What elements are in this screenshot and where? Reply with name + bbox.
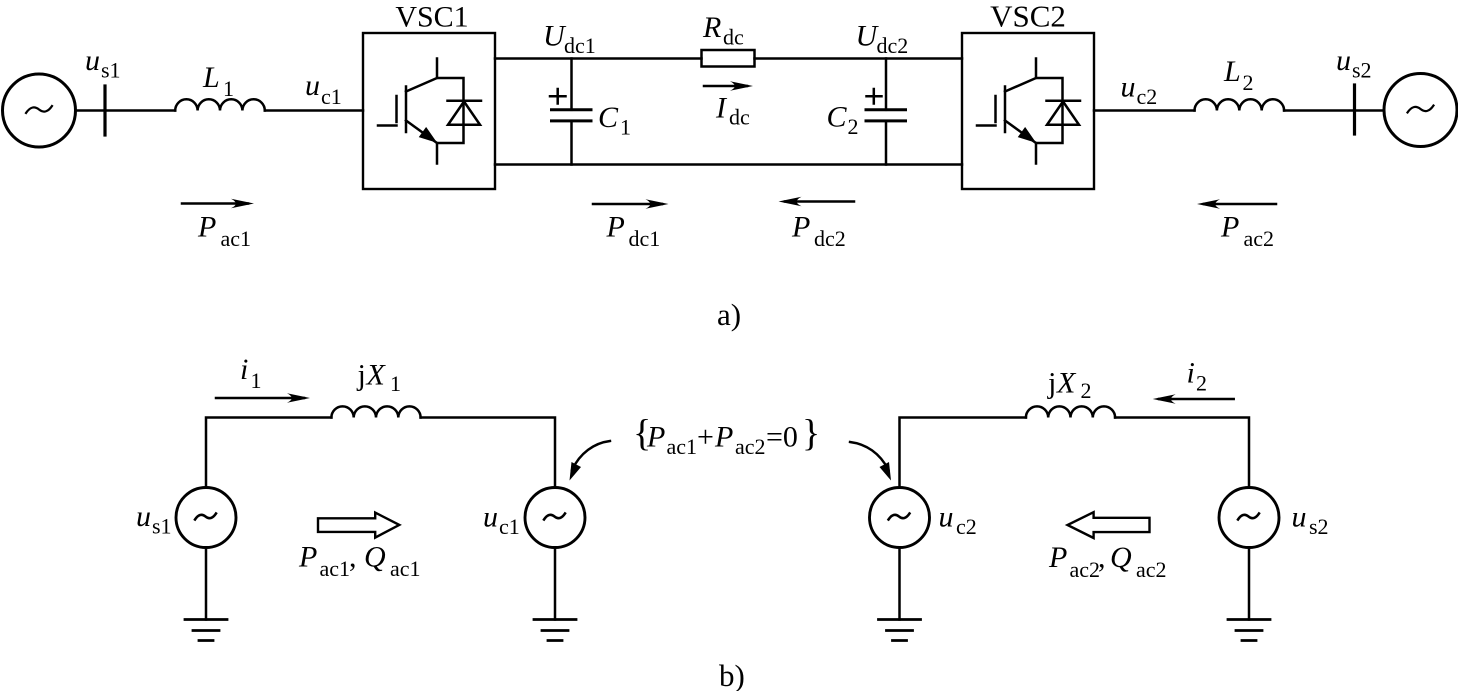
plus sign C1 (550, 89, 566, 104)
svg-text:u: u (305, 69, 320, 102)
svg-text:R: R (702, 11, 721, 44)
source us1 (176, 488, 236, 548)
svg-text:dc2: dc2 (877, 33, 909, 58)
bus bar us1 (103, 86, 106, 135)
ground us1 (185, 620, 227, 641)
capacitor C2 stub top (885, 59, 888, 110)
ground uc2 (879, 620, 921, 641)
svg-text:c2: c2 (956, 514, 977, 539)
svg-text:P: P (714, 421, 733, 454)
VSC2 diode triangle (1047, 102, 1079, 125)
svg-text:ac1: ac1 (667, 434, 698, 459)
svg-text:dc2: dc2 (814, 226, 846, 251)
arrow i2 (1159, 398, 1234, 401)
svg-text:C: C (827, 101, 848, 134)
svg-text:s2: s2 (1309, 514, 1329, 539)
VSC1 box (363, 33, 495, 189)
VSC2 IGBT gate (977, 87, 1005, 133)
svg-text:u: u (939, 501, 954, 534)
svg-text:dc: dc (729, 105, 750, 130)
ground uc1 (534, 620, 576, 641)
svg-text:s1: s1 (152, 514, 172, 539)
wire L1 to VSC1 (265, 109, 363, 112)
svg-text:L: L (202, 61, 220, 94)
svg-text:2: 2 (1196, 371, 1207, 396)
source uc1 (525, 488, 585, 548)
svg-text:u: u (136, 500, 151, 533)
tilde uc1 (544, 514, 565, 520)
inductor L1 (175, 99, 265, 110)
VSC1 IGBT gate (378, 87, 406, 133)
wire Rdc to VSC2 (755, 57, 963, 60)
arrow Pac2 (1204, 203, 1276, 206)
inductor L2 (1195, 99, 1285, 110)
svg-text:u: u (1336, 44, 1351, 77)
circuit b left: top wire (206, 418, 555, 488)
svg-text:=0: =0 (766, 421, 798, 454)
tilde us1 (195, 514, 216, 520)
svg-text:dc1: dc1 (564, 33, 596, 58)
svg-text:1: 1 (620, 115, 631, 140)
arrow Pdc2 (785, 200, 854, 203)
arrow Pdc1 (593, 203, 662, 206)
hollow arrow Pac2 (1068, 512, 1150, 538)
VSC2 IGBT emitter diagonal (1005, 121, 1036, 144)
tilde G2 (1408, 106, 1434, 113)
svg-text:s1: s1 (101, 58, 121, 83)
svg-text:Q: Q (364, 541, 386, 574)
svg-text:ac2: ac2 (735, 434, 766, 459)
svg-text:s2: s2 (1352, 58, 1372, 83)
svg-text:2: 2 (848, 114, 859, 139)
svg-text:u: u (483, 501, 498, 534)
svg-text:P: P (298, 541, 317, 574)
svg-text:1: 1 (223, 76, 234, 101)
wire uc1 to ground (554, 548, 557, 620)
tilde us2 (1238, 514, 1259, 520)
svg-text:ac2: ac2 (1244, 226, 1275, 251)
VSC1 diode bar (448, 100, 482, 103)
svg-text:c1: c1 (499, 514, 520, 539)
VSC1 IGBT emitter diagonal (406, 121, 437, 144)
svg-text:b): b) (719, 658, 745, 691)
svg-text:VSC2: VSC2 (990, 0, 1066, 34)
svg-text:1: 1 (390, 371, 401, 396)
VSC2 IGBT leads (1036, 59, 1063, 164)
svg-text:+: + (697, 421, 714, 454)
VSC2 IGBT collector diagonal (1005, 78, 1036, 92)
svg-text:i: i (1187, 357, 1195, 390)
svg-text:L: L (1223, 55, 1241, 88)
capacitor C2 stub bottom (885, 121, 888, 165)
capacitor C1 plates (552, 110, 592, 121)
wire VSC1 top dc (495, 57, 702, 60)
wire us1 to ground (205, 548, 208, 620)
svg-text:X: X (1056, 367, 1077, 400)
svg-text:j: j (357, 359, 366, 392)
VSC1 IGBT collector diagonal (406, 78, 437, 92)
svg-text:j: j (1047, 367, 1056, 400)
wire bottom dc rail (495, 163, 962, 166)
inductor jX2 (1026, 406, 1115, 417)
svg-text:u: u (85, 44, 100, 77)
wire G1 to L1 (76, 109, 176, 112)
resistor Rdc (702, 50, 755, 67)
VSC2 diode bar (1047, 100, 1081, 103)
svg-text:ac2: ac2 (1070, 557, 1101, 582)
capacitor C1 stub bottom (570, 121, 573, 165)
svg-text:i: i (240, 353, 248, 386)
svg-text:u: u (1121, 71, 1136, 104)
svg-text:P: P (606, 211, 625, 244)
svg-text:2: 2 (1243, 70, 1254, 95)
AC source G2 (1384, 74, 1457, 147)
svg-text:Q: Q (1110, 541, 1132, 574)
VSC2 IGBT emitter arrow (1020, 129, 1033, 140)
tilde uc2 (889, 514, 910, 520)
VSC1 diode triangle (448, 102, 480, 125)
svg-text:dc: dc (723, 25, 744, 50)
tilde G1 (26, 106, 52, 113)
svg-text:X: X (366, 359, 387, 392)
AC source G1 (3, 74, 76, 147)
VSC2 box (962, 33, 1094, 189)
svg-text:VSC1: VSC1 (395, 1, 468, 34)
circuit b right: top wire (900, 418, 1250, 488)
arrow i1 (216, 397, 304, 400)
hollow arrow Pac1 (318, 513, 399, 538)
capacitor C2 plates (866, 110, 906, 121)
VSC1 IGBT leads (437, 59, 464, 164)
capacitor C1 stub top (570, 59, 573, 110)
svg-text:u: u (1292, 501, 1307, 534)
source us2 (1219, 488, 1279, 548)
wire us2 to ground (1248, 548, 1251, 620)
ground us2 (1228, 620, 1270, 641)
svg-text:1: 1 (251, 368, 262, 393)
VSC1 IGBT emitter arrow (421, 129, 434, 140)
svg-text:c2: c2 (1137, 84, 1158, 109)
svg-text:2: 2 (1081, 378, 1092, 403)
wire uc2 to ground (898, 548, 901, 620)
wire VSC2 to L2 (1094, 109, 1195, 112)
svg-text:P: P (1220, 211, 1239, 244)
wire L2 to G2 (1284, 109, 1384, 112)
arrow Idc (704, 85, 747, 88)
source uc2 (870, 488, 930, 548)
svg-text:dc1: dc1 (629, 226, 661, 251)
svg-text:,: , (349, 541, 357, 574)
svg-text:ac1: ac1 (390, 556, 421, 581)
svg-text:,: , (1098, 541, 1106, 574)
svg-text:ac1: ac1 (320, 556, 351, 581)
svg-text:P: P (197, 211, 216, 244)
svg-text:C: C (598, 101, 619, 134)
curved arrow to uc1 (572, 441, 610, 470)
svg-text:}: } (802, 413, 820, 455)
plus sign C2 (867, 89, 882, 104)
svg-text:P: P (646, 421, 665, 454)
svg-text:P: P (791, 211, 810, 244)
svg-text:P: P (1048, 541, 1067, 574)
svg-text:c1: c1 (321, 84, 342, 109)
bus bar us2 (1353, 85, 1356, 134)
arrow Pac1 (182, 202, 248, 205)
svg-text:ac1: ac1 (221, 226, 252, 251)
svg-text:ac2: ac2 (1136, 557, 1167, 582)
svg-text:a): a) (717, 297, 741, 332)
inductor jX1 (331, 406, 420, 417)
curved arrow to uc2 (850, 442, 889, 470)
